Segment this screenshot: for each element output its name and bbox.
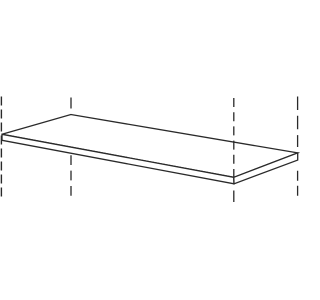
- shelf top face: [2, 115, 298, 178]
- dashed guide line 1 (left): [0, 97, 2, 198]
- shelf right edge face: [234, 153, 298, 184]
- dashed guide line 3 last dash: [233, 191, 235, 203]
- dashed guide line 4 upper segment: [297, 97, 299, 148]
- shelf front edge face: [2, 134, 234, 184]
- dashed guide line 4 lower segment: [297, 171, 299, 196]
- dashed guide line 2 upper segment: [70, 98, 72, 111]
- dashed guide line 2 lower segment: [70, 155, 72, 197]
- dashed guide line 3 upper segment: [233, 98, 235, 183]
